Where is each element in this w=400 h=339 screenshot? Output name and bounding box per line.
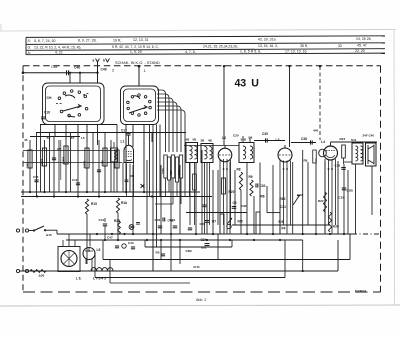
page edge top — [2, 30, 396, 32]
resistor R9 — [250, 180, 253, 196]
resistor under T1 — [193, 174, 197, 190]
wire IF link y145 — [184, 145, 239, 147]
tube L2 pins — [219, 160, 221, 234]
svg-text:41193: 41193 — [40, 158, 44, 166]
resistor chain x87 — [85, 148, 89, 168]
wire drop x267 — [266, 186, 268, 213]
wire L5 pins — [85, 259, 87, 264]
svg-text:Δ30: Δ30 — [39, 274, 45, 278]
svg-text:8, 9, 27, 28,: 8, 9, 27, 28, — [78, 39, 97, 43]
wire grid top x152 — [151, 133, 153, 143]
bus y283 — [110, 282, 190, 284]
svg-text:S6: S6 — [47, 136, 51, 140]
svg-text:C44: C44 — [170, 218, 176, 222]
wire x90 up — [89, 234, 91, 246]
table left edge — [25, 37, 27, 54]
svg-text:5, 6, 7, 24, 30: 5, 6, 7, 24, 30 — [34, 39, 55, 43]
wire drop x247 — [246, 163, 248, 235]
capacitor C48 — [66, 70, 68, 75]
svg-text:24F C40: 24F C40 — [363, 134, 375, 138]
wire drop x325 — [324, 161, 326, 234]
wafer S1 contacts — [58, 97, 61, 100]
svg-text:C48: C48 — [51, 65, 57, 69]
page edge bottom — [0, 305, 400, 306]
svg-text:C43: C43 — [128, 241, 134, 245]
ballast resistor R30 — [30, 270, 46, 273]
wire y259 right up — [349, 234, 351, 260]
resistor R22 — [324, 192, 327, 212]
capacitor L1 pin cap — [125, 179, 129, 181]
wire y271 right up — [337, 240, 339, 271]
capacitor C3 — [232, 206, 237, 208]
svg-text:C15: C15 — [33, 175, 39, 179]
wire x218 down — [217, 234, 219, 260]
loop resistor 177 — [175, 157, 178, 182]
wire chain x93 — [92, 133, 94, 193]
svg-text:R6: R6 — [261, 195, 265, 199]
wire drop x87 low — [86, 214, 88, 264]
wire chain x117 — [116, 125, 118, 193]
chassis frame bottom side — [23, 291, 381, 293]
svg-text:C46: C46 — [155, 218, 161, 222]
bus y271 — [20, 270, 338, 272]
bus y247 — [145, 246, 232, 248]
svg-text:R1b: R1b — [121, 201, 127, 205]
capacitor C47 — [115, 245, 119, 247]
wire drop x218 — [217, 170, 219, 225]
wire drop x235 — [234, 170, 236, 225]
output transformer S11 — [352, 143, 363, 164]
table line 4 — [26, 53, 385, 55]
svg-text:R24: R24 — [340, 137, 346, 141]
svg-text:C31: C31 — [280, 205, 286, 209]
capacitor x138 — [136, 222, 140, 224]
svg-text:C47: C47 — [107, 236, 113, 240]
svg-text:Abb. 2: Abb. 2 — [196, 298, 206, 302]
svg-text:45: 45 — [24, 138, 28, 142]
loop resistor 169 — [167, 157, 170, 180]
wire det link y142 — [291, 142, 316, 144]
wire y247 right up — [231, 240, 233, 247]
svg-text:L 7-2-4 3: L 7-2-4 3 — [93, 277, 106, 281]
wire drop x230 — [229, 162, 231, 234]
wire chain x49.5 — [49, 133, 51, 193]
wire chain x87 — [86, 142, 88, 192]
resistor R7 box — [220, 214, 224, 234]
svg-text:C3b: C3b — [242, 204, 248, 208]
wire drop x207 — [206, 163, 208, 235]
svg-text:L5: L5 — [81, 136, 85, 140]
wire wafer1 drop 3 — [77, 124, 79, 140]
svg-text:13, 15, 16, 3,: 13, 15, 16, 3, — [258, 44, 278, 48]
nested routing loop 1 — [157, 90, 166, 152]
capacitor C44 — [173, 225, 177, 227]
svg-text:R8: R8 — [304, 159, 308, 163]
svg-text:4, 7, 5,: 4, 7, 5, — [185, 50, 196, 54]
svg-text:C20: C20 — [233, 134, 239, 138]
wire drop x348 — [347, 170, 349, 234]
mains terminal 2 — [16, 269, 19, 272]
wire loops link y204 — [155, 203, 173, 205]
svg-text:45, 47: 45, 47 — [357, 44, 367, 48]
svg-text:1, 8, 5 R 5, 6,: 1, 8, 5 R 5, 6, — [240, 50, 261, 54]
chassis frame left side — [22, 66, 24, 292]
svg-text:CH: CH — [47, 96, 52, 100]
switch wafer S1 inner — [46, 86, 101, 122]
wire chain x44.5 — [44, 140, 46, 192]
wire chain x40.5 — [40, 125, 42, 193]
svg-text:G:: G: — [28, 45, 32, 49]
resistor box x313 — [313, 150, 317, 163]
wire x105 — [104, 226, 106, 240]
lamp circle — [129, 225, 134, 230]
svg-text:12, 13, 31: 12, 13, 31 — [133, 38, 149, 42]
wire drop x202 — [201, 150, 203, 234]
capacitor C42 — [161, 253, 165, 255]
svg-text:440: 440 — [313, 129, 318, 133]
wire T2 tops — [242, 136, 244, 143]
svg-text:4, 21: 4, 21 — [55, 51, 63, 55]
wire wafer1 top drop B — [79, 73, 81, 83]
capacitor C38 — [310, 140, 312, 144]
svg-text:17, 13, 19, 16,: 17, 13, 19, 16, — [285, 49, 307, 53]
IF transformer T3 — [201, 144, 213, 163]
svg-text:C49: C49 — [101, 68, 107, 72]
tube L4 — [324, 146, 338, 160]
resistor chain x117 — [115, 150, 119, 168]
wire drop x338 — [337, 161, 339, 234]
wire drop x196 — [195, 163, 197, 235]
resistor R24 — [342, 145, 346, 158]
svg-text:K26: K26 — [333, 225, 339, 229]
bus nodes y234 — [96, 233, 98, 235]
IF transformer T1 — [186, 143, 198, 163]
svg-text:16 R,: 16 R, — [113, 38, 121, 42]
wire y259 left up — [102, 240, 104, 260]
svg-text:42, 29, 31a: 42, 29, 31a — [258, 37, 276, 41]
nested routing loop 6 — [157, 110, 185, 152]
capacitor chain x54 — [52, 157, 56, 159]
svg-text:33: 33 — [338, 44, 342, 48]
bus y225 — [232, 224, 330, 226]
node x224 — [223, 65, 225, 67]
loop wire 185 — [184, 152, 186, 197]
switch S — [34, 226, 44, 231]
wire chain x66 — [65, 140, 67, 192]
svg-text:C33: C33 — [297, 193, 303, 197]
nested routing loop 5 — [157, 106, 181, 152]
wire drop x280 — [279, 199, 281, 234]
node input-1 — [138, 65, 141, 68]
svg-text:Δ15: Δ15 — [46, 233, 52, 237]
svg-text:P4: P4 — [282, 227, 286, 231]
wire AVC drop x289 — [289, 66, 291, 147]
wire y277 left up — [94, 252, 96, 278]
chassis frame dashed border — [23, 65, 381, 67]
svg-text:3100: 3100 — [161, 168, 165, 174]
svg-text:L 6.: L 6. — [76, 277, 82, 281]
page edge left tick — [0, 24, 2, 32]
switch wafer S1 outer — [43, 83, 105, 125]
wire rect top pins — [62, 240, 64, 247]
svg-text:22, 20: 22, 20 — [355, 49, 365, 53]
resistor chain x105 — [103, 148, 107, 166]
svg-text:4118: 4118 — [101, 160, 105, 166]
wire link y124 — [40, 124, 117, 126]
nested routing loop 3 — [157, 98, 173, 152]
svg-text:2113: 2113 — [26, 162, 30, 168]
wire speaker drop2 — [371, 166, 373, 215]
nested routing loop 2 — [157, 94, 169, 152]
svg-text:C5: C5 — [57, 147, 61, 151]
wire drop x241 — [240, 190, 242, 234]
wire chain x78 — [77, 140, 79, 197]
bus dashdot y234 — [352, 233, 380, 235]
wire speaker drop — [355, 164, 357, 234]
wire chain x111 — [110, 140, 112, 192]
svg-text:43: 43 — [235, 77, 247, 89]
svg-text:L5: L5 — [97, 248, 101, 252]
bus main y234 — [57, 233, 352, 235]
IF transformer T2 — [239, 143, 254, 163]
svg-text:11858: 11858 — [62, 156, 66, 164]
junction X mark — [141, 184, 145, 188]
svg-text:38 R,: 38 R, — [300, 44, 308, 48]
capacitor under T3 — [203, 204, 207, 206]
svg-text:S7: S7 — [71, 136, 75, 140]
svg-text:R9: R9 — [249, 175, 253, 179]
page edge right — [393, 30, 396, 305]
tube L4 pins — [324, 159, 326, 234]
loop resistor 181 — [179, 155, 182, 178]
bus nodes y240 — [104, 239, 106, 241]
svg-text:B6: B6 — [249, 136, 253, 140]
resistor box 258 — [256, 212, 260, 234]
wire link y132 — [36, 132, 186, 134]
wire link y136 — [30, 136, 80, 138]
wire chain x99 — [98, 140, 100, 197]
svg-text:R/5: R/5 — [238, 220, 243, 224]
rectifier box — [58, 247, 80, 272]
svg-text:C4b: C4b — [74, 66, 80, 70]
svg-text:R/5: R/5 — [279, 220, 284, 224]
capacitor C4B — [162, 218, 164, 222]
svg-text:U: U — [251, 77, 259, 89]
capacitor chain x78 — [76, 182, 80, 184]
svg-text:24, 25 26,: 24, 25 26, — [356, 37, 372, 41]
wire drop x254 — [253, 196, 255, 234]
svg-text:b: b — [103, 59, 105, 63]
capacitor C30 — [255, 183, 257, 187]
chassis frame right side — [380, 66, 382, 292]
wire drop x316 — [315, 158, 317, 234]
svg-text:34B: 34B — [241, 138, 247, 142]
wire wafer2 drop 2 — [132, 125, 134, 148]
wire wafer2 drop 4 — [149, 125, 151, 197]
wire drop x133 — [132, 165, 134, 234]
wire switch out — [45, 229, 57, 231]
svg-text:C17: C17 — [121, 129, 127, 133]
wire drop x273 — [272, 165, 274, 234]
wafer S1 rotor arrow — [63, 105, 81, 112]
volume pot arrow — [293, 196, 299, 205]
heater coil L6 — [91, 268, 113, 271]
capacitor C26 — [341, 167, 346, 169]
wire y247 left up — [144, 240, 146, 247]
svg-text:C30: C30 — [260, 184, 266, 188]
tube L3 pins — [279, 161, 281, 235]
wire x300 down — [302, 240, 304, 271]
tube L3 — [278, 148, 292, 162]
capacitor C3B — [342, 187, 347, 189]
nested routing loop 4 — [157, 102, 177, 152]
wire dashed drop x320 — [319, 66, 321, 140]
wire drop x292.7 — [292, 162, 294, 234]
wire chain x54 — [53, 137, 55, 197]
bus y277 — [95, 277, 285, 279]
svg-text:R8: R8 — [237, 168, 241, 172]
wire wafer1 drop 5 — [97, 124, 99, 145]
svg-text:R FL: R FL — [194, 265, 201, 269]
switch wafer S2 outer — [121, 86, 159, 125]
mains terminal 1 — [16, 229, 19, 232]
wafer S2 contacts — [127, 101, 129, 104]
svg-text:C3B: C3B — [347, 189, 354, 193]
bus y259 — [103, 259, 350, 261]
svg-text:1, 9, 29: 1, 9, 29 — [130, 50, 142, 54]
table line 2 — [26, 43, 385, 45]
electrolytic circle — [122, 244, 126, 248]
svg-text:R5: R5 — [156, 251, 160, 255]
wire wafer1 drop 4 — [86, 124, 88, 142]
wire drop x180 — [179, 165, 181, 234]
capacitor small x190 — [188, 227, 192, 229]
svg-text:L3: L3 — [276, 138, 280, 142]
rectifier tube — [61, 251, 77, 267]
table line 3 — [26, 49, 385, 51]
capacitor C17 — [126, 132, 130, 134]
capacitor C43 — [131, 246, 135, 248]
svg-text:C38: C38 — [301, 137, 307, 141]
wire drop x302.7 — [302, 150, 304, 234]
wire output top — [331, 141, 378, 143]
svg-text:A:: A: — [28, 51, 31, 55]
resistor chain x44.5 — [42, 148, 46, 166]
wire wafer1 drop 2 — [65, 124, 67, 140]
wire drop x153b — [152, 240, 154, 271]
resistor chain x66 — [64, 146, 68, 164]
wafer S2 rotor arrow — [129, 105, 147, 113]
wire chain x105 — [104, 133, 106, 193]
bus AVC y192 — [21, 191, 200, 193]
svg-text:13, 22, R 10, 2, 4, 44 R, 15,: 13, 22, R 10, 2, 4, 44 R, 15, 45, — [34, 45, 81, 49]
svg-text:C12: C12 — [72, 178, 78, 182]
svg-text:11400: 11400 — [113, 160, 117, 168]
svg-text:D2824: D2824 — [355, 290, 367, 294]
speaker — [366, 143, 377, 166]
resistor under L2 — [222, 178, 226, 194]
tube L5 — [83, 248, 95, 260]
resistor chain x30 — [28, 150, 32, 168]
svg-text:L4: L4 — [321, 140, 325, 144]
svg-text:R13: R13 — [280, 197, 286, 201]
wire drop x308 — [307, 162, 309, 225]
svg-text:C39: C39 — [262, 132, 268, 136]
svg-text:S:: S: — [28, 39, 31, 43]
wire mains-top horizontal — [23, 72, 98, 74]
tube L4 diode — [319, 149, 327, 157]
node x289 — [288, 65, 290, 67]
wire input-1 vertical — [138, 66, 140, 86]
svg-text:R15: R15 — [91, 202, 97, 206]
node x320 — [319, 65, 321, 67]
capacitor C34 — [205, 243, 210, 245]
tube L2 — [218, 148, 232, 162]
wire cross y162 — [23, 162, 122, 164]
svg-text:31100: 31100 — [83, 160, 87, 168]
wire drop x161 — [160, 165, 162, 234]
wire ballast out — [46, 270, 58, 272]
svg-text:R6: R6 — [131, 174, 135, 178]
svg-text:R7: R7 — [212, 220, 216, 224]
svg-text:L2: L2 — [222, 136, 226, 140]
resistor R8 — [239, 172, 242, 190]
svg-text:C3: C3 — [233, 201, 237, 205]
wire link R24 transformer — [344, 161, 352, 163]
switch wafer S2 inner — [124, 89, 156, 122]
node aerial junction — [96, 72, 98, 74]
jack circle — [227, 224, 231, 228]
wire wafer2 drop 7 — [159, 125, 161, 197]
svg-text:C1B: C1B — [339, 196, 346, 200]
svg-text:C45: C45 — [200, 222, 206, 226]
resistor R15 — [85, 199, 88, 214]
loop resistor 173 — [171, 155, 174, 178]
capacitor chain x36.5 — [34, 179, 38, 181]
svg-text:C26: C26 — [335, 164, 341, 168]
wire chain x36.5 — [36, 133, 38, 197]
wire det link y140 — [254, 140, 285, 142]
bus B y240 — [66, 239, 303, 241]
svg-text:D82: D82 — [201, 246, 207, 250]
capacitor C45 — [205, 220, 209, 222]
wire x285 down — [284, 240, 286, 278]
table line 1 — [26, 36, 385, 38]
capacitor C41b — [103, 223, 107, 225]
input transformer S9 — [111, 148, 118, 162]
wire under T3 b — [209, 163, 211, 226]
capacitor C46 — [158, 225, 162, 227]
wire drop x161b — [160, 240, 162, 260]
wafer S1 dashes — [56, 103, 62, 105]
wire wafer2 drop 6 — [156, 125, 158, 248]
svg-text:24,21, 15, 25,34,23,26,: 24,21, 15, 25,34,23,26, — [203, 45, 238, 49]
pot arrow — [228, 219, 232, 224]
wire under T1 b — [194, 163, 196, 226]
svg-text:C18: C18 — [44, 111, 50, 115]
wire drop x147 — [146, 160, 148, 234]
wire drop x344 — [343, 164, 345, 234]
wire drop x171 — [170, 160, 172, 247]
svg-text:R20: R20 — [229, 190, 235, 194]
wire y283 left up — [109, 260, 111, 284]
wire cross y150 — [23, 150, 117, 152]
svg-text:SCHAK. IN K.G. - STAND: SCHAK. IN K.G. - STAND — [115, 60, 160, 65]
loop resistor 166 — [164, 155, 167, 178]
wire under T1 a — [189, 163, 191, 197]
svg-text:R22: R22 — [318, 199, 324, 203]
wire wafer1 top drop A — [69, 73, 71, 83]
